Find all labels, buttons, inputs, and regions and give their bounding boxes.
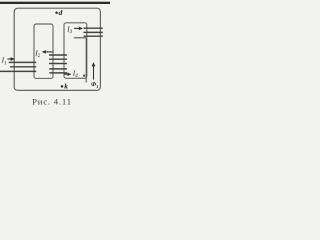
winding W1 on left leg (bars) bbox=[0, 62, 36, 71]
core left window bbox=[34, 24, 53, 78]
page rule (top text baseline line) bbox=[0, 2, 110, 4]
junction blob near k-side of right window bbox=[83, 74, 86, 77]
current arrow I4 bbox=[64, 72, 71, 76]
flux arrow Phi1 bbox=[92, 62, 96, 80]
winding W3 on right leg (bars) bbox=[84, 28, 103, 36]
svg-text:Рис. 4.11: Рис. 4.11 bbox=[32, 97, 72, 107]
core right window bbox=[64, 23, 87, 79]
current arrow I1 bbox=[7, 57, 14, 61]
winding W4 lower-middle (bars) bbox=[49, 69, 67, 73]
winding W2 upper-middle (bars) bbox=[49, 55, 67, 64]
paper background bbox=[0, 0, 110, 110]
node k bbox=[61, 85, 64, 88]
current arrow I3 bbox=[74, 27, 83, 31]
current arrow I2 bbox=[42, 50, 53, 54]
winding W3 lower lead bbox=[74, 37, 86, 39]
svg-text:d: d bbox=[59, 8, 63, 17]
core outer outline bbox=[14, 8, 100, 90]
svg-text:k: k bbox=[64, 82, 68, 91]
node d bbox=[55, 11, 58, 14]
wire: right window edge overshoot bbox=[85, 38, 87, 82]
